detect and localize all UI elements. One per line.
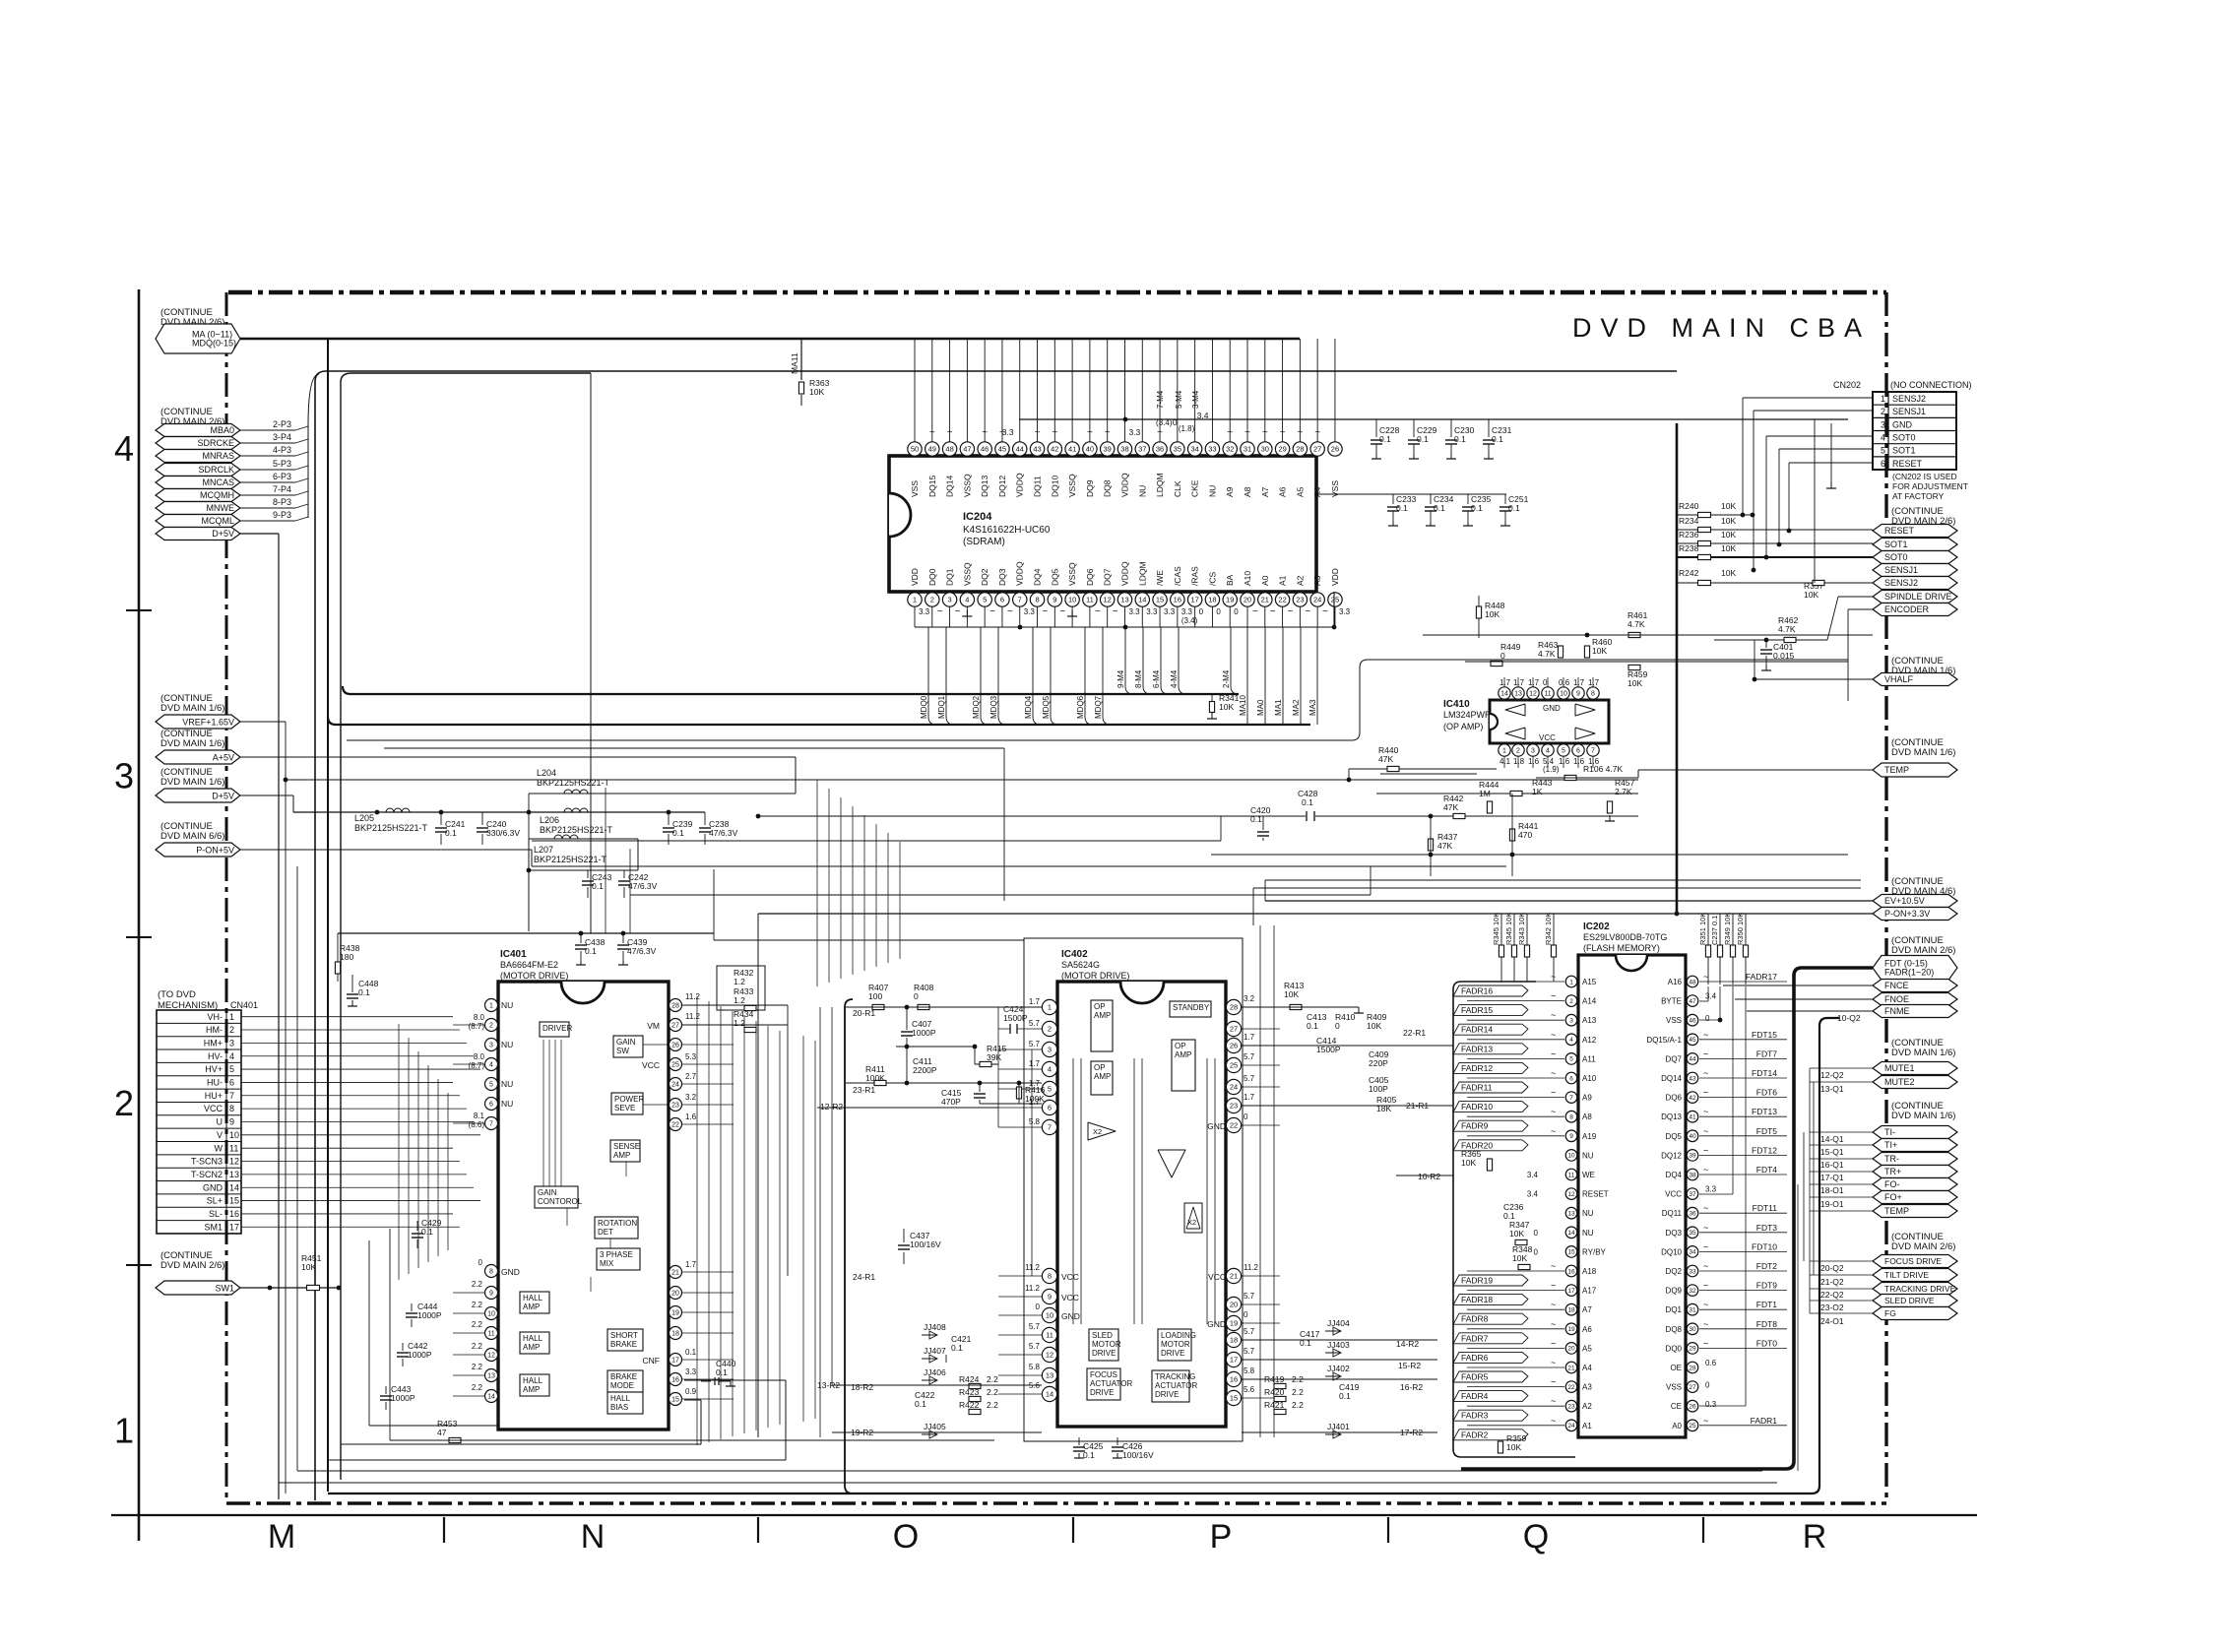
svg-text:MDQ0: MDQ0 [920,695,928,719]
svg-text:BRAKE: BRAKE [610,1372,637,1381]
svg-text:DQ13: DQ13 [980,476,989,497]
svg-text:SOT1: SOT1 [1892,446,1916,456]
svg-text:ENCODER: ENCODER [1884,604,1930,614]
svg-text:1000P: 1000P [912,1028,936,1038]
svg-text:37: 37 [1138,445,1146,454]
svg-text:0: 0 [1335,1021,1340,1031]
svg-text:A0: A0 [1672,1422,1682,1430]
svg-text:1.7: 1.7 [1499,678,1511,687]
svg-text:MDQ5: MDQ5 [1042,695,1051,719]
svg-text:SLED DRIVE: SLED DRIVE [1884,1296,1935,1305]
svg-text:~: ~ [1703,1338,1708,1348]
svg-text:19: 19 [1567,1326,1575,1333]
svg-text:12: 12 [1104,596,1112,604]
svg-text:GND: GND [1061,1311,1080,1321]
svg-text:FADR7: FADR7 [1461,1333,1489,1343]
svg-text:27: 27 [1689,1384,1696,1391]
svg-text:MA2: MA2 [1292,699,1301,716]
svg-text:8: 8 [1569,1114,1573,1121]
svg-text:DQ12: DQ12 [997,476,1007,497]
svg-text:~: ~ [1551,1088,1556,1098]
svg-text:14: 14 [1046,1390,1053,1399]
svg-text:P: P [1210,1518,1233,1556]
svg-text:FO+: FO+ [1884,1192,1902,1202]
svg-text:BA6664FM-E2: BA6664FM-E2 [500,960,558,970]
svg-text:1000P: 1000P [408,1350,432,1360]
svg-text:(3.4): (3.4) [1181,616,1198,625]
svg-text:HV+: HV+ [205,1064,223,1074]
svg-text:6: 6 [1881,459,1885,469]
svg-text:FADR15: FADR15 [1461,1005,1493,1015]
svg-text:NU: NU [501,1040,513,1049]
svg-text:VDD: VDD [910,568,920,586]
svg-text:~: ~ [1551,1300,1556,1309]
svg-text:JJ403: JJ403 [1327,1340,1350,1350]
svg-text:3.3: 3.3 [1339,607,1351,616]
svg-text:6: 6 [1000,596,1004,604]
svg-text:23: 23 [1567,1404,1575,1411]
svg-text:~: ~ [1703,1107,1708,1116]
svg-text:DQ7: DQ7 [1103,568,1113,586]
svg-text:4: 4 [229,1051,234,1061]
svg-text:4.7K: 4.7K [1538,649,1556,659]
svg-text:8: 8 [1035,596,1039,604]
svg-text:0: 0 [1244,1112,1248,1121]
svg-text:47K: 47K [1378,754,1393,764]
svg-text:12: 12 [487,1353,495,1360]
svg-text:~: ~ [1551,1377,1556,1387]
svg-text:DQ15: DQ15 [927,476,937,497]
svg-text:1.7: 1.7 [1029,997,1041,1006]
svg-text:14: 14 [1567,1230,1575,1237]
svg-text:15-Q1: 15-Q1 [1820,1147,1844,1157]
svg-text:R422: R422 [959,1400,980,1410]
svg-text:AMP: AMP [523,1343,540,1352]
svg-text:5.8: 5.8 [1029,1117,1041,1126]
svg-text:POWER: POWER [614,1095,644,1104]
svg-text:/CS: /CS [1207,572,1217,587]
svg-text:16-R2: 16-R2 [1400,1382,1423,1392]
svg-text:0.1: 0.1 [1454,434,1466,444]
svg-text:A2: A2 [1295,575,1305,586]
svg-text:22: 22 [1278,596,1286,604]
svg-text:ACTUATOR: ACTUATOR [1090,1379,1132,1388]
svg-text:24: 24 [1567,1423,1575,1430]
svg-text:~: ~ [1551,1319,1556,1329]
svg-text:A+5V: A+5V [213,752,234,762]
svg-text:SDRCKE: SDRCKE [197,438,234,448]
svg-text:24: 24 [1230,1083,1238,1092]
svg-text:MODE: MODE [610,1381,634,1390]
svg-text:15: 15 [671,1397,679,1404]
svg-text:LOADING: LOADING [1161,1331,1196,1340]
svg-text:~: ~ [1105,427,1111,438]
svg-text:EV+10.5V: EV+10.5V [1884,896,1925,906]
svg-text:DVD MAIN 1/6): DVD MAIN 1/6) [160,777,224,788]
svg-text:4: 4 [489,1062,493,1069]
svg-text:FDT0: FDT0 [1756,1338,1778,1348]
svg-text:(SDRAM): (SDRAM) [963,537,1005,547]
svg-text:IC401: IC401 [500,949,527,960]
svg-text:13: 13 [1120,596,1128,604]
svg-text:DQ9: DQ9 [1666,1287,1683,1296]
svg-text:A8: A8 [1582,1112,1592,1121]
svg-text:5: 5 [229,1064,234,1074]
svg-text:5: 5 [1569,1056,1573,1063]
svg-text:38: 38 [1120,445,1128,454]
svg-text:39: 39 [1689,1153,1696,1160]
svg-text:16: 16 [229,1209,239,1219]
svg-text:2.2: 2.2 [472,1320,483,1329]
svg-text:3: 3 [1569,1018,1573,1025]
svg-text:3.3: 3.3 [1128,427,1140,437]
svg-text:FADR8: FADR8 [1461,1314,1489,1324]
svg-text:A9: A9 [1225,486,1235,497]
svg-text:12: 12 [1046,1351,1053,1360]
svg-text:~: ~ [1551,1358,1556,1367]
svg-text:FADR6: FADR6 [1461,1353,1489,1363]
svg-text:/WE: /WE [1155,570,1165,586]
svg-text:VCC: VCC [1539,733,1556,742]
svg-text:28: 28 [1689,1365,1696,1371]
svg-text:R106 4.7K: R106 4.7K [1583,764,1623,774]
svg-text:NU: NU [501,1099,513,1109]
svg-text:7-P4: 7-P4 [273,484,291,494]
svg-text:4.7K: 4.7K [1627,619,1645,629]
svg-text:0: 0 [1534,1229,1539,1238]
svg-text:39: 39 [1104,445,1112,454]
svg-text:GND: GND [501,1267,520,1277]
svg-text:A10: A10 [1243,571,1252,586]
svg-text:30: 30 [1689,1326,1696,1333]
svg-text:JJ405: JJ405 [924,1422,946,1431]
svg-text:~: ~ [989,606,995,617]
svg-text:0.1: 0.1 [1471,503,1483,513]
svg-text:(TO DVD: (TO DVD [158,989,196,1000]
svg-text:20: 20 [1244,596,1251,604]
svg-text:(CN202 IS USED: (CN202 IS USED [1892,472,1957,481]
svg-text:22: 22 [1567,1384,1575,1391]
svg-text:28: 28 [1230,1003,1238,1012]
svg-text:1.6: 1.6 [685,1112,697,1121]
svg-text:VDDQ: VDDQ [1015,561,1025,586]
svg-text:25: 25 [1230,1061,1238,1070]
svg-text:14-Q1: 14-Q1 [1820,1134,1844,1144]
svg-text:13: 13 [1046,1371,1053,1380]
svg-text:TR+: TR+ [1884,1167,1901,1176]
svg-text:10K: 10K [1721,530,1736,540]
svg-text:~: ~ [1551,1068,1556,1078]
svg-text:VCC: VCC [1061,1293,1079,1303]
svg-text:MNRAS: MNRAS [202,451,234,461]
svg-text:~: ~ [1280,427,1286,438]
svg-text:R349 10K: R349 10K [1723,913,1732,945]
svg-text:44: 44 [1689,1056,1696,1063]
svg-text:CN202: CN202 [1833,380,1861,390]
svg-text:46: 46 [1689,1018,1696,1025]
svg-text:24: 24 [671,1082,679,1089]
svg-text:SENSE: SENSE [613,1142,640,1151]
svg-text:0.1: 0.1 [585,946,597,956]
svg-text:2: 2 [1516,748,1520,755]
svg-text:0.1: 0.1 [1434,503,1445,513]
svg-text:A16: A16 [1668,978,1683,986]
svg-text:~: ~ [1113,606,1118,617]
svg-text:~: ~ [1703,1068,1708,1078]
svg-text:HALL: HALL [523,1294,543,1303]
svg-text:SW: SW [616,1047,629,1055]
svg-text:17: 17 [671,1358,679,1365]
svg-text:4-P3: 4-P3 [273,445,291,455]
svg-text:(FLASH MEMORY): (FLASH MEMORY) [1583,943,1660,953]
svg-text:(1.9): (1.9) [1543,765,1560,774]
svg-text:VDDQ: VDDQ [1015,473,1025,497]
svg-text:TRACKING DRIVE: TRACKING DRIVE [1884,1284,1956,1294]
svg-text:GND: GND [1892,419,1913,429]
svg-text:23-R1: 23-R1 [853,1085,875,1095]
svg-text:4: 4 [1048,1065,1052,1074]
svg-text:13: 13 [229,1170,239,1179]
svg-text:~: ~ [1703,1088,1708,1098]
svg-text:MCQML: MCQML [202,516,235,526]
svg-text:1: 1 [1569,979,1573,985]
svg-text:42: 42 [1051,445,1058,454]
svg-text:6-P3: 6-P3 [273,472,291,481]
svg-text:11: 11 [1086,596,1094,604]
svg-text:MUTE2: MUTE2 [1884,1077,1915,1087]
svg-text:10-R2: 10-R2 [1418,1172,1440,1181]
svg-text:~: ~ [982,427,988,438]
svg-text:49: 49 [928,445,936,454]
svg-text:DQ15/A-1: DQ15/A-1 [1646,1036,1682,1045]
svg-text:42: 42 [1689,1095,1696,1102]
svg-text:A7: A7 [1582,1305,1592,1314]
svg-text:L205: L205 [354,813,374,823]
svg-text:20: 20 [1567,1346,1575,1353]
svg-text:8: 8 [489,1269,493,1276]
svg-text:STANDBY: STANDBY [1173,1003,1210,1012]
svg-text:3.2: 3.2 [685,1093,697,1102]
svg-text:/CAS: /CAS [1173,566,1182,586]
svg-text:6: 6 [1569,1075,1573,1082]
svg-text:1.6: 1.6 [1559,757,1570,766]
svg-text:SOT0: SOT0 [1892,433,1916,443]
svg-text:18K: 18K [1376,1104,1391,1113]
svg-text:7-M4: 7-M4 [1156,390,1165,409]
svg-text:3: 3 [229,1038,234,1048]
svg-text:ES29LV800DB-70TG: ES29LV800DB-70TG [1583,932,1667,942]
svg-text:OP: OP [1175,1042,1186,1050]
svg-text:DQ8: DQ8 [1666,1325,1683,1334]
svg-text:5.7: 5.7 [1244,1347,1255,1356]
svg-text:P-ON+5V: P-ON+5V [196,845,234,855]
svg-text:~: ~ [1551,1338,1556,1348]
svg-text:VH-: VH- [208,1012,223,1022]
svg-text:U: U [217,1117,223,1127]
svg-text:2-M4: 2-M4 [1222,669,1231,688]
svg-text:LDQM: LDQM [1155,473,1165,497]
svg-text:TI-: TI- [1884,1127,1895,1137]
svg-text:FADR4: FADR4 [1461,1391,1489,1401]
svg-text:DVD MAIN 2/6): DVD MAIN 2/6) [1891,945,1955,956]
svg-text:9: 9 [1569,1133,1573,1140]
svg-text:SL-: SL- [209,1209,223,1219]
svg-text:0: 0 [1216,607,1221,616]
svg-text:DQ2: DQ2 [980,568,989,586]
svg-text:R345 10K: R345 10K [1504,913,1513,945]
svg-text:47: 47 [963,445,971,454]
svg-text:12: 12 [1529,691,1537,698]
svg-text:24-R1: 24-R1 [853,1272,875,1282]
svg-text:1: 1 [114,1411,134,1451]
svg-text:1: 1 [1502,748,1506,755]
svg-text:SW1: SW1 [215,1283,234,1293]
svg-text:SOT0: SOT0 [1884,552,1908,562]
svg-text:V: V [217,1130,223,1140]
svg-text:BKP2125HS221-T: BKP2125HS221-T [540,825,613,835]
svg-text:35: 35 [1689,1230,1696,1237]
svg-text:33: 33 [1689,1268,1696,1275]
svg-text:19: 19 [1226,596,1234,604]
svg-text:15: 15 [1156,596,1164,604]
svg-text:~: ~ [1703,1261,1708,1271]
svg-text:A3: A3 [1582,1383,1592,1392]
svg-text:R242: R242 [1679,568,1699,578]
svg-text:FDT13: FDT13 [1752,1107,1777,1116]
svg-text:DVD MAIN 2/6): DVD MAIN 2/6) [160,1260,224,1271]
svg-text:MUTE1: MUTE1 [1884,1063,1915,1073]
svg-text:11: 11 [1568,1172,1575,1178]
svg-text:L206: L206 [540,815,559,825]
svg-text:DQ9: DQ9 [1085,479,1095,497]
svg-text:SL+: SL+ [207,1196,223,1206]
svg-text:5.7: 5.7 [1029,1040,1041,1048]
svg-text:26: 26 [1689,1404,1696,1411]
svg-text:30: 30 [1261,445,1269,454]
svg-text:FADR14: FADR14 [1461,1025,1493,1035]
svg-text:3: 3 [947,596,951,604]
svg-text:1M: 1M [1479,789,1491,798]
svg-text:MCQMH: MCQMH [200,490,234,500]
svg-text:A0: A0 [1260,575,1270,586]
svg-text:DQ0: DQ0 [1666,1344,1683,1353]
svg-text:A5: A5 [1295,486,1305,497]
svg-text:NU: NU [1137,485,1147,497]
svg-text:DQ14: DQ14 [1661,1074,1682,1083]
svg-text:VSSQ: VSSQ [962,562,972,586]
svg-text:DRIVER: DRIVER [542,1024,572,1033]
svg-text:8-M4: 8-M4 [1134,669,1143,688]
svg-text:SDRCLK: SDRCLK [198,465,234,475]
svg-text:12-Q2: 12-Q2 [1820,1070,1844,1080]
svg-text:VCC: VCC [1061,1272,1079,1282]
svg-text:13-Q1: 13-Q1 [1820,1084,1844,1094]
svg-text:TEMP: TEMP [1884,765,1909,775]
svg-text:CONTOROL: CONTOROL [538,1197,583,1206]
svg-text:0: 0 [1543,678,1548,687]
svg-text:VSSQ: VSSQ [1067,474,1077,497]
svg-text:11: 11 [1544,691,1551,698]
svg-text:1.2: 1.2 [734,995,745,1005]
svg-text:FDT7: FDT7 [1756,1048,1778,1058]
svg-text:5.3: 5.3 [685,1052,697,1061]
svg-text:0.1: 0.1 [445,828,457,838]
svg-text:MDQ4: MDQ4 [1024,695,1033,719]
svg-text:7: 7 [229,1091,234,1101]
svg-text:1: 1 [1881,394,1885,404]
svg-text:39K: 39K [987,1052,1001,1062]
svg-text:100K: 100K [1025,1094,1045,1104]
svg-text:2.2: 2.2 [987,1387,998,1397]
svg-text:(MOTOR DRIVE): (MOTOR DRIVE) [1061,971,1129,981]
svg-text:HM-: HM- [206,1025,223,1035]
svg-text:16: 16 [1567,1268,1575,1275]
svg-text:IC202: IC202 [1583,921,1610,932]
svg-text:10K: 10K [1367,1021,1381,1031]
svg-text:~: ~ [1703,1165,1708,1175]
svg-text:FOR ADJUSTMENT: FOR ADJUSTMENT [1892,481,1968,491]
svg-text:17: 17 [1230,1356,1238,1365]
svg-text:43: 43 [1033,445,1041,454]
svg-text:R350 10K: R350 10K [1736,913,1745,945]
svg-text:0.1: 0.1 [672,828,684,838]
svg-text:HM+: HM+ [204,1038,223,1048]
svg-text:A6: A6 [1278,486,1288,497]
svg-text:5.7: 5.7 [1029,1322,1041,1331]
svg-text:46: 46 [981,445,989,454]
svg-text:~: ~ [1551,1281,1556,1291]
svg-text:FADR1: FADR1 [1751,1416,1778,1426]
svg-text:FADR18: FADR18 [1461,1295,1493,1304]
svg-text:DQ3: DQ3 [997,568,1007,586]
svg-text:1.2: 1.2 [734,977,745,986]
svg-text:~: ~ [1551,1030,1556,1040]
svg-text:SENSJ1: SENSJ1 [1884,565,1918,575]
svg-text:27: 27 [671,1023,679,1030]
svg-text:26: 26 [1331,445,1339,454]
svg-text:LDQM: LDQM [1137,561,1147,586]
svg-text:DQ14: DQ14 [945,476,955,497]
svg-text:0.1: 0.1 [1302,797,1313,807]
svg-text:8.1: 8.1 [474,1112,485,1120]
svg-text:47/6.3V: 47/6.3V [709,828,738,838]
svg-text:AMP: AMP [1094,1072,1111,1081]
svg-text:GND: GND [1207,1319,1226,1329]
svg-text:27: 27 [1230,1025,1238,1034]
svg-text:10K: 10K [1721,516,1736,526]
svg-text:0.1: 0.1 [1307,1021,1318,1031]
svg-text:(1.8): (1.8) [1179,424,1195,433]
svg-text:38: 38 [1689,1172,1696,1178]
svg-text:10K: 10K [1512,1253,1527,1263]
svg-text:A4: A4 [1312,486,1322,497]
svg-text:14-R2: 14-R2 [1396,1339,1419,1349]
svg-text:R238: R238 [1679,543,1699,553]
svg-text:X2: X2 [1187,1218,1196,1227]
svg-text:BIAS: BIAS [610,1403,628,1412]
svg-text:R234: R234 [1679,516,1699,526]
svg-text:1500P: 1500P [1316,1045,1341,1054]
svg-text:DQ11: DQ11 [1033,476,1043,497]
svg-text:AMP: AMP [1094,1011,1111,1020]
svg-text:BKP2125HS221-T: BKP2125HS221-T [534,855,607,864]
svg-text:2.2: 2.2 [472,1342,483,1351]
svg-text:0.1: 0.1 [358,987,370,997]
svg-text:DQ8: DQ8 [1103,479,1113,497]
svg-text:R351 10K: R351 10K [1698,913,1707,945]
svg-text:5: 5 [983,596,987,604]
svg-text:10K: 10K [1509,1229,1524,1239]
